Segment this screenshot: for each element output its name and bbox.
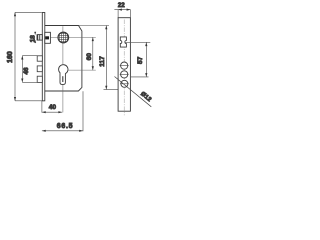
dimension 66.5 (case depth): [42, 130, 83, 132]
dimension 22 (faceplate width): [114, 9, 130, 18]
dimension 117 (case top to lower hole line): [79, 26, 119, 90]
bottom extension lines for 40 / 66.5: [42, 91, 83, 131]
svg-text:117: 117: [99, 56, 106, 67]
svg-text:18: 18: [29, 35, 36, 43]
tab 1 on outer face of plate: [37, 56, 42, 61]
tab 2 on outer face of plate: [37, 66, 42, 72]
dimension 40 (backset): [42, 111, 62, 113]
dimension 60 (follower to cylinder centres): [92, 37, 94, 70]
faceplate vertical centerline: [123, 20, 125, 116]
svg-text:46: 46: [23, 67, 30, 75]
bottom hole (Ø12): [120, 80, 129, 87]
euro cylinder profile: [59, 65, 68, 85]
follower horizontal centerline / 60-dim top extension: [51, 36, 96, 38]
follower hub (cross-hatched circle): [58, 32, 69, 43]
vertical centerline through follower and cylinder: [62, 26, 64, 112]
svg-text:160: 160: [7, 51, 14, 63]
screw hole 1: [120, 62, 129, 69]
leader line for Ø12: [115, 77, 152, 107]
latch bolt body (solid dark block): [45, 36, 49, 39]
svg-text:57: 57: [137, 56, 144, 64]
faceplate front rectangle: [118, 18, 130, 112]
latch guide box inside case: [45, 32, 51, 43]
screw hole 2: [120, 71, 129, 78]
faceplate (side view, vertical strip): [42, 13, 45, 101]
dimension 57 (latch centre to hole): [131, 42, 149, 77]
svg-text:60: 60: [86, 53, 93, 61]
cylinder horizontal centerline / 60-dim bottom extension: [68, 69, 96, 71]
tab 3 on outer face of plate: [37, 76, 42, 82]
svg-text:22: 22: [118, 2, 125, 9]
dimension 18 (latch bolt height): [34, 32, 36, 43]
lock case outline with chamfered back corners: [45, 26, 82, 92]
svg-text:66.5: 66.5: [57, 123, 73, 130]
svg-text:40: 40: [49, 104, 57, 111]
latch cutout (spool-shaped opening): [120, 37, 126, 47]
dimension 160 (full plate height, far left): [14, 12, 45, 100]
latch bolt head (protrudes left of faceplate): [37, 35, 42, 41]
latch centreline / 57-dim top extension: [125, 41, 151, 43]
dimension 46 (tab stack height): [21, 56, 37, 83]
